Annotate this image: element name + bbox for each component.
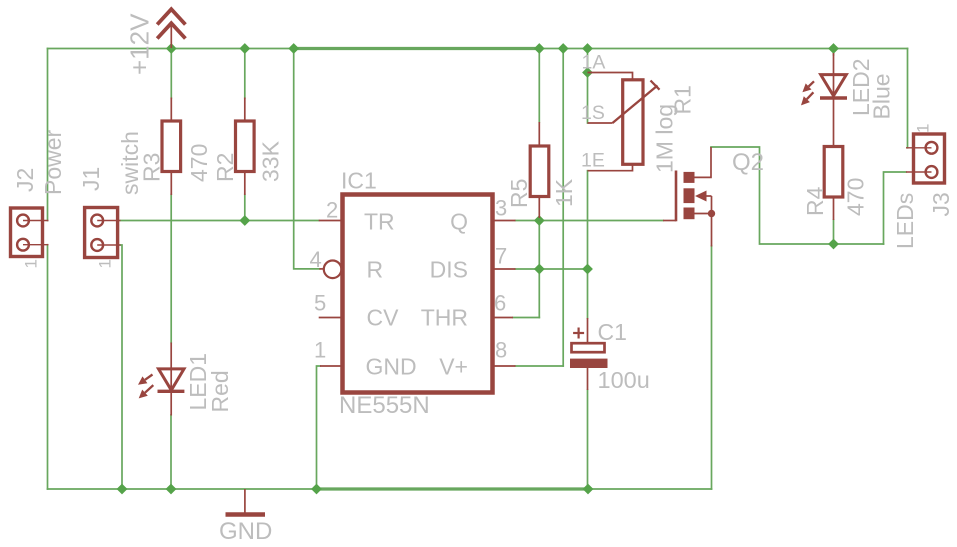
wire right rail down to J3 pin 1 bbox=[907, 49, 909, 148]
svg-text:NE555N: NE555N bbox=[339, 392, 430, 419]
capacitor C1 bbox=[570, 318, 608, 390]
resistor R2 bbox=[236, 98, 255, 196]
pin 5 CV stub bbox=[319, 317, 343, 319]
svg-text:GND: GND bbox=[219, 518, 272, 545]
svg-text:THR: THR bbox=[421, 305, 468, 331]
svg-text:5: 5 bbox=[314, 291, 326, 316]
wire Q2 source down to GND rail bbox=[711, 246, 713, 489]
svg-text:6: 6 bbox=[494, 291, 506, 316]
wire C1 minus down to GND rail bbox=[587, 390, 589, 489]
pin 8 V+ stub bbox=[493, 365, 516, 367]
svg-text:1: 1 bbox=[914, 124, 933, 133]
pin 1 GND stub bbox=[320, 365, 343, 367]
wire top rail to LED2 anode bbox=[833, 49, 835, 56]
connector J2 bbox=[11, 208, 49, 257]
svg-text:1E: 1E bbox=[581, 150, 605, 172]
potentiometer R1 bbox=[588, 73, 660, 171]
wire R2 bottom to TR node bbox=[244, 195, 246, 221]
svg-text:C1: C1 bbox=[598, 319, 627, 345]
wire +12V down to R1 pin A bbox=[587, 49, 589, 124]
wire +12V to R3 top bbox=[170, 49, 172, 99]
svg-text:1: 1 bbox=[314, 338, 326, 363]
svg-text:R: R bbox=[367, 257, 384, 283]
wire LED string to J3 pin 2 bbox=[884, 172, 907, 244]
resistor R5 bbox=[530, 122, 549, 218]
wire R3 bottom to LED1 anode bbox=[170, 195, 172, 343]
resistor R4 bbox=[824, 147, 843, 221]
junction top rail R3 bbox=[166, 43, 177, 54]
wire IC pin 1 GND down to GND rail bbox=[317, 366, 321, 489]
svg-text:Blue: Blue bbox=[869, 73, 895, 119]
svg-text:4: 4 bbox=[310, 247, 322, 272]
connector J1 bbox=[85, 208, 121, 258]
junction top rail R2 bbox=[239, 43, 250, 54]
junction top rail V+ column bbox=[558, 43, 569, 54]
wire Q2 drain route to LED string bbox=[711, 147, 884, 244]
svg-text:R1: R1 bbox=[670, 85, 696, 114]
pin 4 R stub with inverter bubble bbox=[319, 268, 323, 270]
wire DIS line bbox=[516, 268, 588, 270]
svg-text:1K: 1K bbox=[551, 178, 577, 207]
wire GND bottom rail left bbox=[48, 488, 317, 490]
svg-text:R2: R2 bbox=[212, 153, 238, 182]
wire left rail upper (top rail to J2 pin 2) bbox=[47, 49, 49, 221]
wire R1 pin E down to DIS node bbox=[587, 171, 589, 269]
junction top rail R5 bbox=[534, 43, 545, 54]
connector J3 bbox=[906, 134, 945, 183]
junction DIS node C1 column bbox=[582, 264, 593, 275]
resistor R3 bbox=[162, 98, 181, 196]
wire +12V down to IC pin 4 reset bbox=[294, 49, 320, 269]
ground symbol bbox=[226, 489, 266, 515]
svg-text:CV: CV bbox=[367, 305, 400, 331]
junction GND rail IC pin1 bbox=[311, 484, 322, 495]
wire GND bottom rail right bbox=[588, 488, 712, 490]
svg-text:J3: J3 bbox=[928, 192, 954, 216]
wire Q output line to Q2 gate bbox=[516, 220, 664, 222]
svg-text:1S: 1S bbox=[581, 102, 605, 124]
svg-text:R3: R3 bbox=[139, 153, 165, 182]
svg-text:J2: J2 bbox=[12, 168, 38, 192]
svg-text:33K: 33K bbox=[258, 140, 284, 182]
svg-text:J1: J1 bbox=[78, 167, 104, 191]
transistor Q2 bbox=[663, 147, 715, 247]
wire +12V down to R5 top bbox=[538, 49, 540, 123]
svg-text:1: 1 bbox=[96, 259, 115, 268]
svg-text:V+: V+ bbox=[439, 354, 468, 380]
svg-text:470: 470 bbox=[186, 144, 212, 182]
svg-text:LEDs: LEDs bbox=[892, 193, 918, 249]
svg-text:GND: GND bbox=[366, 354, 417, 380]
pin 6 THR stub bbox=[493, 317, 514, 319]
diode LED2 bbox=[801, 53, 847, 147]
svg-text:TR: TR bbox=[364, 209, 395, 235]
supply +12V symbol bbox=[157, 9, 185, 48]
svg-text:Red: Red bbox=[207, 370, 233, 412]
junction Q node R5 bbox=[534, 215, 545, 226]
svg-text:100u: 100u bbox=[598, 367, 650, 393]
svg-text:8: 8 bbox=[495, 338, 507, 363]
wire R5 bottom through Q node and DIS node to THR bbox=[538, 217, 540, 318]
svg-text:1: 1 bbox=[22, 259, 41, 268]
svg-text:R5: R5 bbox=[506, 179, 532, 208]
diode LED1 bbox=[138, 343, 184, 416]
wire +12V top rail middle thick bbox=[294, 47, 540, 50]
wire +12V to R2 top bbox=[244, 49, 246, 99]
junction LED string node R4 bottom bbox=[828, 239, 839, 250]
junction DIS node R5 column bbox=[534, 264, 545, 275]
wire LED1 cathode to GND rail bbox=[170, 415, 172, 489]
svg-text:DIS: DIS bbox=[430, 257, 468, 283]
svg-text:7: 7 bbox=[495, 244, 507, 269]
wire TR line J1 pin2 to IC pin 2 bbox=[121, 220, 319, 222]
junction top rail R1 column bbox=[582, 43, 593, 54]
junction GND rail LED1 bbox=[166, 484, 177, 495]
svg-text:R4: R4 bbox=[802, 186, 828, 216]
wire V+ column up to top rail bbox=[562, 49, 564, 367]
svg-text:+12V: +12V bbox=[125, 13, 155, 75]
svg-text:Q2: Q2 bbox=[732, 149, 764, 176]
junction top rail LED2 bbox=[828, 43, 839, 54]
pin 3 Q stub bbox=[493, 220, 516, 222]
junction GND rail C1 bbox=[583, 484, 594, 495]
op IC1 NE555N box bbox=[343, 195, 493, 393]
wire IC pin 8 V+ to +12V column bbox=[516, 365, 564, 367]
svg-text:Q: Q bbox=[450, 209, 468, 235]
wire THR elbow to IC pin 6 bbox=[513, 317, 539, 319]
junction top rail reset column bbox=[288, 43, 299, 54]
wire DIS node down to C1 plus bbox=[587, 269, 589, 318]
svg-text:Power: Power bbox=[40, 129, 66, 195]
junction GND rail J1 bbox=[117, 484, 128, 495]
svg-text:470: 470 bbox=[843, 178, 869, 216]
wire left rail lower (J2 pin 1 to GND rail) bbox=[47, 245, 49, 489]
wire J1 pin1 down to GND rail bbox=[121, 245, 123, 489]
pin 2 TR stub bbox=[319, 220, 343, 222]
svg-text:1A: 1A bbox=[582, 52, 606, 74]
svg-text:2: 2 bbox=[326, 198, 338, 223]
junction TR node R2 bbox=[239, 215, 250, 226]
wire +12V top rail right bbox=[539, 48, 907, 50]
svg-text:IC1: IC1 bbox=[341, 168, 377, 194]
wire GND bottom rail middle thick bbox=[317, 487, 589, 490]
wire +12V top rail left bbox=[48, 48, 294, 50]
pin 7 DIS stub bbox=[493, 268, 516, 270]
wire R4 bottom to LED string node bbox=[833, 220, 835, 245]
junction R1 pin A bbox=[582, 67, 593, 78]
